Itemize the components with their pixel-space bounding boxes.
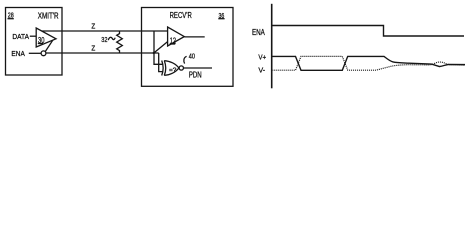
svg-text:XMIT'R: XMIT'R xyxy=(38,11,59,20)
svg-text:RECV'R: RECV'R xyxy=(170,11,192,20)
svg-text:36: 36 xyxy=(219,11,225,20)
svg-text:ENA: ENA xyxy=(11,49,25,58)
svg-text:DATA: DATA xyxy=(12,32,29,41)
svg-text:Z: Z xyxy=(91,22,95,31)
svg-text:30: 30 xyxy=(38,36,45,45)
svg-text:=?: =? xyxy=(169,67,177,74)
svg-text:12: 12 xyxy=(170,36,176,45)
svg-text:40: 40 xyxy=(189,52,195,61)
svg-text:PDN: PDN xyxy=(189,70,202,79)
svg-text:32: 32 xyxy=(101,35,107,44)
svg-text:28: 28 xyxy=(8,11,14,20)
svg-text:V-: V- xyxy=(258,66,265,75)
svg-text:Z: Z xyxy=(91,44,95,53)
svg-text:V+: V+ xyxy=(258,53,266,62)
svg-text:ENA: ENA xyxy=(252,28,265,37)
